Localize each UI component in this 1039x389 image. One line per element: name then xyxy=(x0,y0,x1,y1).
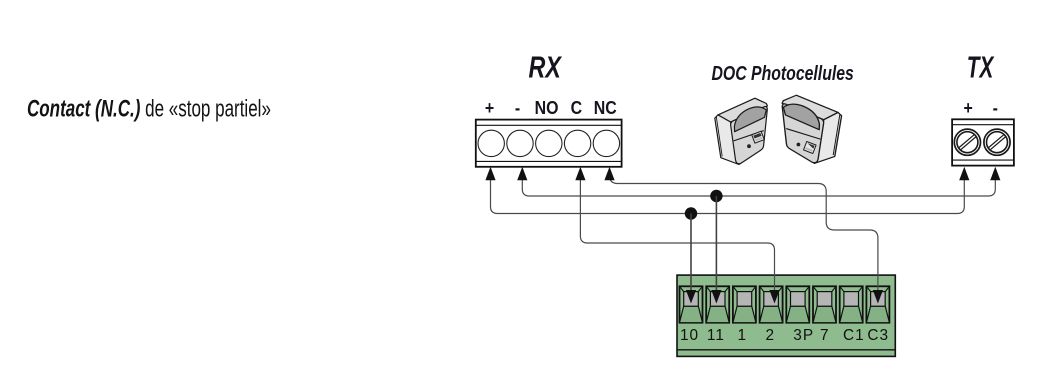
wire junction to terminal 10 xyxy=(690,214,692,293)
wire net C : RX C to terminal 2 xyxy=(580,178,774,292)
right unit side face xyxy=(814,112,841,163)
svg-text:7: 7 xyxy=(820,327,830,344)
screw terminal 1 xyxy=(733,286,756,322)
svg-text:TX: TX xyxy=(967,49,995,84)
svg-text:-: - xyxy=(515,97,521,118)
right unit window xyxy=(783,104,819,130)
screw terminal 3P xyxy=(786,286,809,322)
screw terminal 10 xyxy=(680,286,703,322)
terminal block RX xyxy=(476,120,622,167)
svg-text:DOC Photocellules: DOC Photocellules xyxy=(712,61,854,85)
terminal block TX xyxy=(952,119,1014,165)
arrowhead into RX NC xyxy=(604,167,614,181)
arrowhead into terminal 10 xyxy=(686,290,696,304)
right unit seam line xyxy=(786,129,820,140)
left unit indicator dot xyxy=(747,144,751,148)
right unit side chamfer line xyxy=(833,114,840,155)
arrowhead into terminal C3 xyxy=(873,290,883,304)
green terminal strip xyxy=(677,275,895,356)
arrowhead into RX + xyxy=(485,167,495,181)
svg-text:-: - xyxy=(993,97,999,118)
svg-text:RX: RX xyxy=(529,49,563,84)
left unit top face xyxy=(718,98,768,122)
right unit top face xyxy=(782,95,838,119)
arrowhead into terminal 11 xyxy=(711,290,721,304)
TX terminal + (screw) xyxy=(954,129,980,155)
svg-text:Contact (N.C.) de «stop partie: Contact (N.C.) de «stop partiel» xyxy=(27,96,271,123)
right unit nameplate xyxy=(804,142,817,154)
RX terminal + xyxy=(478,130,504,156)
left unit seam line xyxy=(734,131,764,141)
svg-text:C: C xyxy=(571,97,582,118)
junction dot net - / terminal 11 xyxy=(710,190,722,202)
svg-text:NC: NC xyxy=(594,97,617,118)
photocell right (DOC) xyxy=(782,95,841,163)
wire junction to terminal 11 xyxy=(715,196,717,292)
TX terminal - (screw) xyxy=(984,129,1010,155)
wire net - : RX- to TX- xyxy=(522,178,995,196)
left unit side face xyxy=(715,115,739,165)
left unit window xyxy=(734,107,766,132)
left unit nameplate xyxy=(752,131,765,143)
svg-text:11: 11 xyxy=(707,327,725,344)
right unit indicator dot xyxy=(797,143,801,147)
screw terminal 7 xyxy=(813,286,836,322)
arrowhead into RX - xyxy=(517,167,527,181)
svg-text:2: 2 xyxy=(766,327,776,344)
svg-text:+: + xyxy=(485,97,494,118)
svg-text:C1: C1 xyxy=(843,327,865,344)
screw terminal C3 xyxy=(866,286,889,322)
junction dot net + / terminal 10 xyxy=(685,207,697,219)
screw terminal C1 xyxy=(840,286,863,322)
RX terminal NO xyxy=(536,130,562,156)
arrowhead into TX - xyxy=(990,167,1000,181)
arrowhead into terminal 2 xyxy=(769,290,779,304)
left unit front face xyxy=(731,107,768,164)
screw terminal 11 xyxy=(706,286,729,322)
left unit side chamfer line xyxy=(716,117,722,157)
wire net NC : RX NC to terminal C3 xyxy=(610,172,878,292)
wire net + : RX+ to TX+ xyxy=(491,178,965,214)
screw terminal 2 xyxy=(760,286,783,322)
right unit front face xyxy=(782,104,823,163)
svg-text:+: + xyxy=(964,97,973,118)
svg-text:3P: 3P xyxy=(793,327,814,344)
RX terminal C xyxy=(564,130,590,156)
RX terminal NC xyxy=(593,130,619,156)
svg-text:C3: C3 xyxy=(867,327,889,344)
arrowhead into RX C xyxy=(575,167,585,181)
photocell left (DOC) xyxy=(715,98,768,164)
RX terminal - xyxy=(507,130,533,156)
svg-text:NO: NO xyxy=(535,97,559,118)
svg-text:10: 10 xyxy=(680,327,699,344)
svg-text:1: 1 xyxy=(738,327,748,344)
arrowhead into TX + xyxy=(959,167,969,181)
